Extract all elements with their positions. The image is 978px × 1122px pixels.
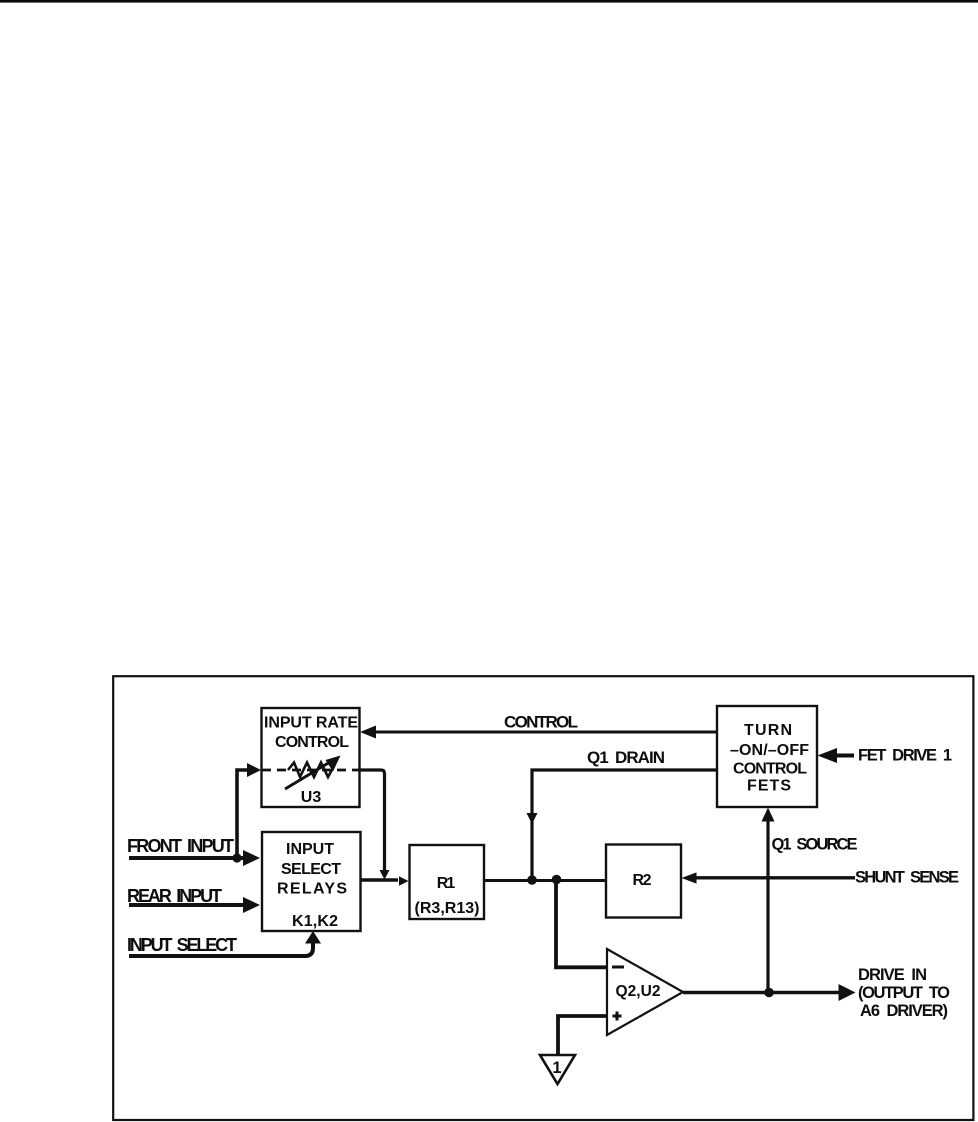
svg-text:(OUTPUT TO: (OUTPUT TO xyxy=(858,984,950,1002)
svg-text:REAR INPUT: REAR INPUT xyxy=(127,886,222,906)
svg-text:DRIVE IN: DRIVE IN xyxy=(858,966,927,984)
svg-text:U3: U3 xyxy=(301,789,322,806)
svg-text:FETS: FETS xyxy=(747,778,791,795)
svg-text:Q1 DRAIN: Q1 DRAIN xyxy=(587,748,665,767)
svg-text:(R3,R13): (R3,R13) xyxy=(415,900,480,917)
svg-text:A6 DRIVER): A6 DRIVER) xyxy=(860,1002,948,1020)
svg-text:FET DRIVE 1: FET DRIVE 1 xyxy=(858,747,952,765)
svg-text:INPUT: INPUT xyxy=(286,841,334,858)
svg-text:INPUT RATE: INPUT RATE xyxy=(264,715,358,732)
svg-text:Q2,U2: Q2,U2 xyxy=(616,983,661,1000)
svg-text:1: 1 xyxy=(552,1059,561,1077)
svg-text:Q1 SOURCE: Q1 SOURCE xyxy=(772,836,858,854)
svg-text:R2: R2 xyxy=(633,872,652,889)
svg-text:INPUT SELECT: INPUT SELECT xyxy=(127,935,237,955)
svg-text:SELECT: SELECT xyxy=(281,861,341,878)
svg-text:K1,K2: K1,K2 xyxy=(292,913,338,930)
svg-text:FRONT INPUT: FRONT INPUT xyxy=(127,836,234,856)
svg-text:SHUNT SENSE: SHUNT SENSE xyxy=(855,869,959,887)
svg-text:R1: R1 xyxy=(437,875,456,892)
svg-text:TURN: TURN xyxy=(744,722,792,739)
svg-text:–ON/–OFF: –ON/–OFF xyxy=(730,742,809,759)
svg-text:RELAYS: RELAYS xyxy=(277,881,347,898)
svg-text:CONTROL: CONTROL xyxy=(275,734,349,751)
svg-text:CONTROL: CONTROL xyxy=(504,713,578,732)
svg-text:CONTROL: CONTROL xyxy=(733,761,807,778)
